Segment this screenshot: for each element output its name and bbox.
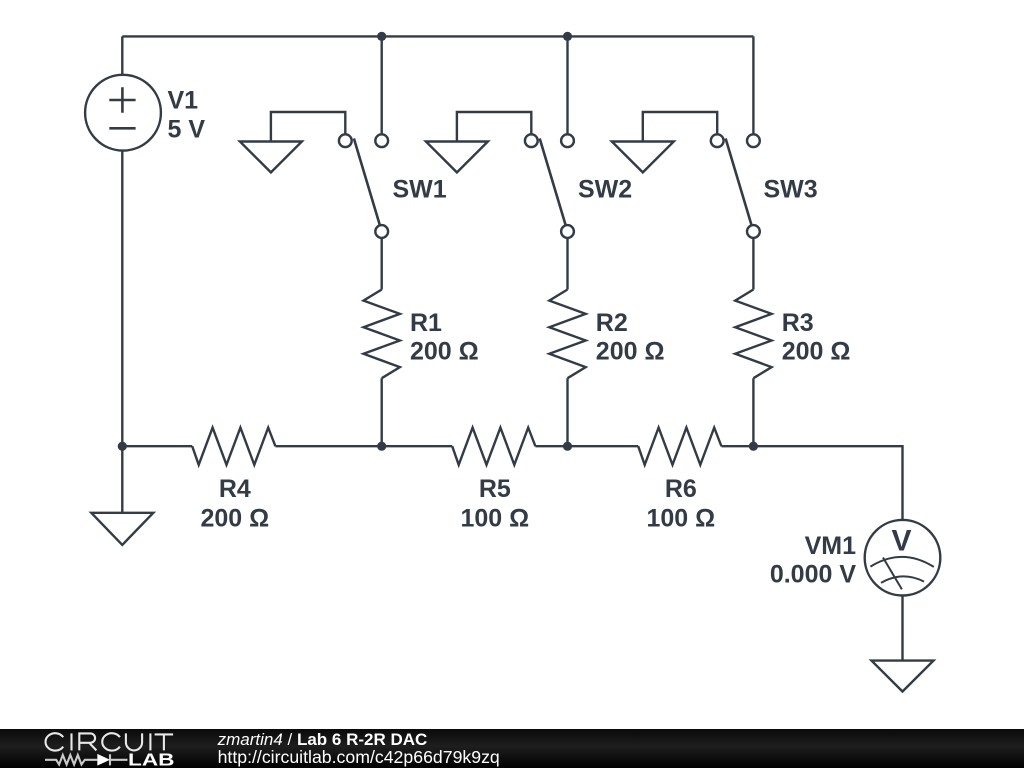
switch SW1 branch (ground, SPDT switch, resistor R1) (240, 112, 400, 446)
svg-text:5 V: 5 V (168, 116, 206, 144)
svg-text:R3: R3 (782, 309, 814, 337)
ground SW2 (426, 142, 488, 173)
resistor R2 (549, 290, 585, 379)
resistor R4 (192, 428, 275, 465)
logo letter C (102, 733, 120, 750)
wire bottom rail segment 4 to voltmeter branch (721, 446, 902, 520)
voltage source V1 (85, 75, 161, 151)
wire SW3 ground link (643, 112, 717, 142)
logo letter I (70, 733, 72, 750)
svg-text:R4: R4 (219, 475, 251, 503)
resistor R3 (735, 290, 771, 379)
svg-text:R6: R6 (665, 475, 697, 503)
switch SW2 right throw terminal (561, 134, 574, 147)
switch SW3 common terminal (747, 225, 760, 238)
switch SW1 left throw terminal (339, 134, 352, 147)
svg-text:100 Ω: 100 Ω (460, 505, 529, 533)
node junction rail / V1 (118, 442, 127, 451)
wire V1 top lead (121, 36, 123, 74)
svg-text:V1: V1 (168, 86, 199, 114)
wire SW2 ground link (457, 112, 531, 142)
V1 plus sign (109, 87, 135, 112)
svg-text:200 Ω: 200 Ω (596, 338, 665, 366)
switch SW3 branch (ground, SPDT switch, resistor R3) (612, 112, 772, 446)
wire SW3 feed from top rail (752, 36, 754, 134)
ground SW1 (240, 142, 302, 173)
svg-text:R5: R5 (479, 475, 511, 503)
logo diode triangle (97, 754, 110, 766)
node junction top rail / SW2 (563, 32, 572, 41)
switch SW1 common terminal (375, 225, 388, 238)
node junction rail / R1 (377, 442, 386, 451)
switch SW2 common terminal (561, 225, 574, 238)
svg-text:0.000 V: 0.000 V (770, 561, 857, 589)
wire SW1 ground link (271, 112, 345, 142)
ground SW3 (612, 142, 674, 173)
svg-text:200 Ω: 200 Ω (410, 338, 479, 366)
svg-text:R2: R2 (596, 309, 628, 337)
ground bottom left (91, 513, 153, 545)
svg-text:100 Ω: 100 Ω (646, 505, 715, 533)
VM1 meter bottom arc (881, 576, 924, 583)
wire left ground lead (121, 446, 123, 513)
ground below VM1 (872, 661, 934, 692)
svg-text:VM1: VM1 (805, 532, 857, 560)
node junction rail / R2 (563, 442, 572, 451)
wire SW1 common to R1 (381, 238, 383, 290)
logo letter R (79, 733, 96, 750)
svg-text:200 Ω: 200 Ω (200, 505, 269, 533)
wire V1 bottom lead (121, 151, 123, 447)
logo letter T (155, 734, 174, 750)
resistor R6 (638, 428, 721, 465)
svg-text:R1: R1 (410, 309, 442, 337)
wire R2 to bottom rail (566, 378, 568, 446)
wire SW1 feed from top rail (381, 36, 383, 134)
wire SW3 common to R3 (752, 238, 754, 290)
wire bottom rail segment 3 (535, 445, 638, 447)
switch SW2 left throw terminal (525, 134, 538, 147)
switch SW2 arm (540, 139, 566, 226)
svg-text:SW2: SW2 (578, 176, 632, 204)
node junction rail / R3 (749, 442, 758, 451)
resistor R1 (364, 290, 400, 379)
wire R3 to bottom rail (752, 378, 754, 446)
wire SW2 feed from top rail (566, 36, 568, 134)
wire bottom rail segment 1 (122, 445, 192, 447)
wire R1 to bottom rail (381, 378, 383, 446)
logo diode bar and tail (110, 754, 128, 765)
svg-text:http://circuitlab.com/c42p66d7: http://circuitlab.com/c42p66d79k9zq (218, 747, 500, 767)
wire top rail (122, 35, 753, 37)
svg-text:V: V (891, 525, 911, 558)
logo resistor squiggle (45, 755, 97, 765)
voltmeter VM1 body (865, 520, 941, 596)
logo letter C (46, 733, 64, 750)
switch SW1 arm (354, 139, 380, 226)
switch SW3 right throw terminal (747, 134, 760, 147)
resistor R5 (452, 428, 535, 465)
svg-text:SW1: SW1 (393, 176, 447, 204)
wire bottom rail segment 2 (275, 445, 452, 447)
wire SW2 common to R2 (566, 238, 568, 290)
switch SW3 arm (726, 139, 752, 226)
switch SW3 left throw terminal (711, 134, 724, 147)
svg-text:SW3: SW3 (764, 176, 818, 204)
wire VM1 bottom lead (901, 596, 903, 661)
switch SW1 right throw terminal (375, 134, 388, 147)
svg-text:LAB: LAB (128, 749, 175, 768)
V1 minus sign (109, 127, 135, 130)
VM1 meter top arc (870, 557, 933, 567)
logo letter I (149, 733, 151, 750)
logo letter U (126, 733, 142, 750)
svg-text:200 Ω: 200 Ω (782, 338, 851, 366)
node junction top rail / SW1 (377, 32, 386, 41)
switch SW2 branch (ground, SPDT switch, resistor R2) (426, 112, 586, 446)
VM1 meter needle (883, 558, 902, 590)
